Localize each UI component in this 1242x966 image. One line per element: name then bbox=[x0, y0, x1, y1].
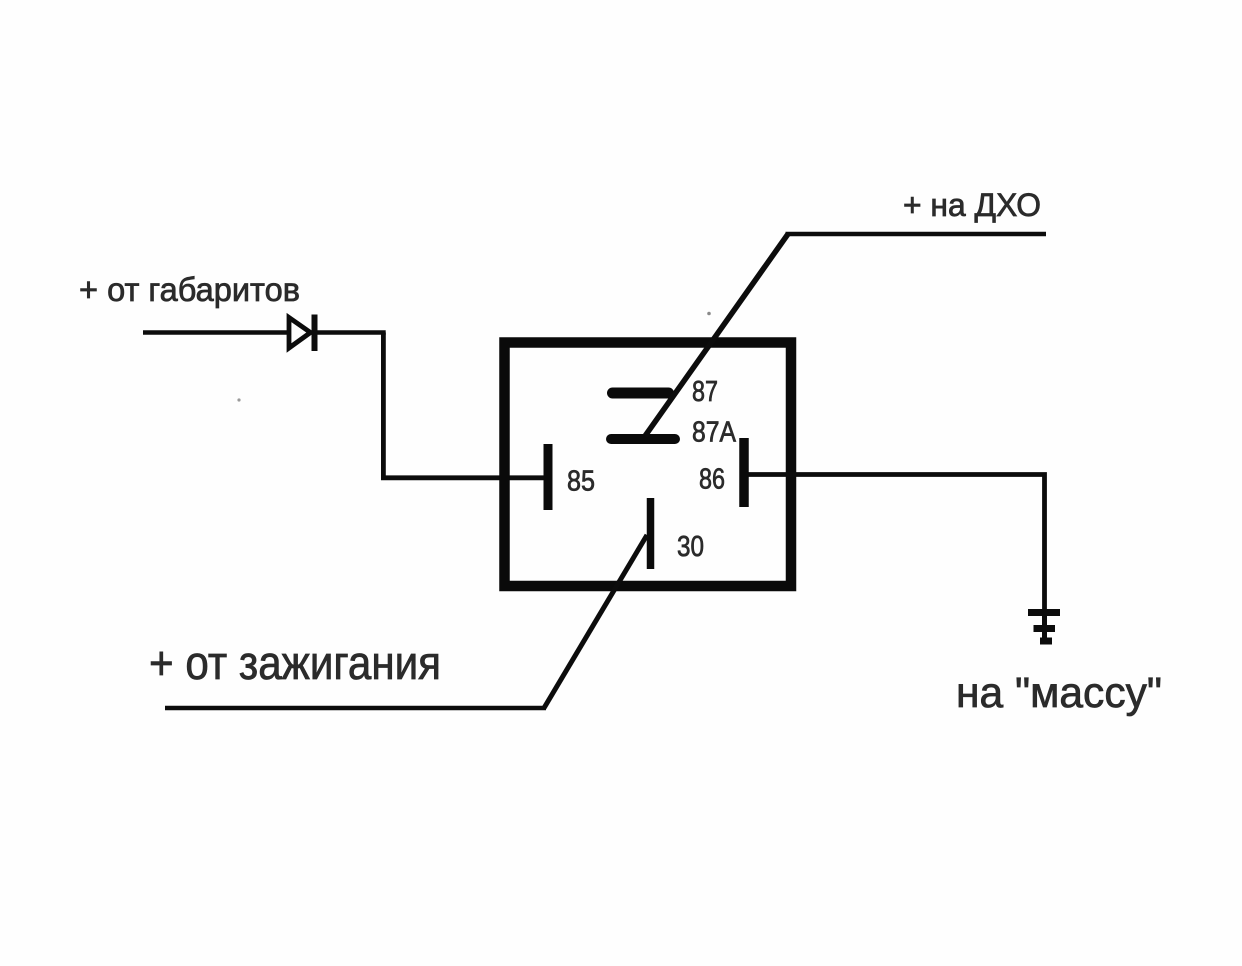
wire pin 86 to ground drop bbox=[749, 475, 1045, 613]
wire diode cathode to corner bbox=[317, 330, 386, 335]
pin 87A fixed contact bar bbox=[611, 434, 675, 444]
svg-text:+ от габаритов: + от габаритов bbox=[79, 271, 300, 308]
diode D1 bbox=[289, 315, 315, 352]
svg-text:87: 87 bbox=[692, 376, 718, 408]
pin 86 coil bar bbox=[739, 438, 749, 507]
wire vertical drop from diode bbox=[381, 333, 386, 481]
ground symbol bbox=[1028, 610, 1060, 641]
wire into pin 85 bbox=[381, 475, 544, 480]
wire to ДХО bbox=[786, 232, 1047, 237]
svg-text:на "массу": на "массу" bbox=[956, 669, 1162, 717]
diagonal wire to pin 30 bbox=[544, 535, 647, 708]
pin 85 coil bar bbox=[544, 444, 553, 510]
wire from габариты to diode anode bbox=[143, 330, 289, 335]
pin 87 fixed contact bar bbox=[613, 388, 669, 399]
scan speck near wire bbox=[237, 398, 240, 401]
wire from зажигание bbox=[165, 706, 546, 711]
svg-text:30: 30 bbox=[677, 531, 704, 563]
svg-text:85: 85 bbox=[567, 466, 595, 498]
relay K1 body bbox=[505, 343, 792, 587]
svg-text:87А: 87А bbox=[692, 417, 737, 449]
svg-text:86: 86 bbox=[699, 464, 725, 496]
relay switch arm (movable contact, to 87A) bbox=[645, 234, 788, 436]
svg-text:+ на ДХО: + на ДХО bbox=[903, 187, 1041, 223]
scan speck above relay box bbox=[707, 312, 711, 316]
svg-text:+ от зажигания: + от зажигания bbox=[149, 636, 441, 689]
pin 30 common contact bar bbox=[647, 498, 655, 569]
